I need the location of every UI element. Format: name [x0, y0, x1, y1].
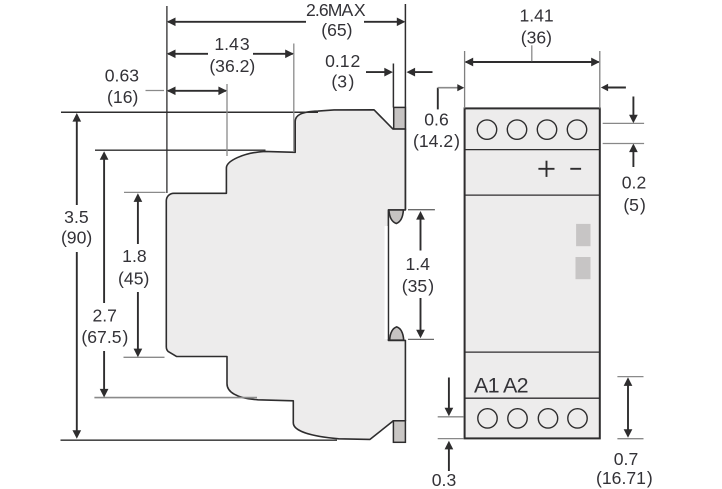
front divider terminal strip [465, 149, 600, 151]
dim 2.6MAX line [167, 17, 406, 26]
svg-text:1.41: 1.41 [519, 5, 553, 25]
svg-text:0.12: 0.12 [325, 51, 360, 71]
svg-text:0.3: 0.3 [432, 470, 457, 489]
extension line gray x293.8 [293, 44, 295, 153]
dim 0.12 arrows [366, 68, 433, 77]
svg-text:(16.71): (16.71) [596, 468, 653, 488]
dim 3.5 arrows [72, 113, 81, 439]
bottom clip [393, 421, 405, 443]
top clip [394, 107, 406, 128]
tick bottom 1.8 [124, 356, 165, 358]
dim 0.2 arrows [603, 97, 644, 168]
svg-text:(3): (3) [331, 71, 354, 91]
reference line bottom 3.5 [61, 439, 338, 441]
extension line front right [599, 51, 601, 108]
front view body [465, 108, 600, 438]
svg-text:A1 A2: A1 A2 [474, 373, 528, 397]
terminal circle T3 [537, 120, 556, 139]
svg-text:(36.2): (36.2) [209, 56, 255, 76]
svg-text:0.7: 0.7 [614, 449, 638, 469]
front divider a1a2 strip [465, 351, 600, 353]
svg-text:0.63: 0.63 [105, 65, 139, 85]
dim 1.4 arrows [408, 210, 435, 340]
dim 1.43 line [167, 49, 294, 58]
dim 0.6 right arrow [601, 84, 626, 91]
bottom terminal circle B1 [478, 409, 497, 428]
svg-text:(45): (45) [118, 268, 149, 288]
svg-text:2.7: 2.7 [92, 305, 116, 325]
bottom terminal circle B4 [568, 409, 587, 428]
din rail flange left line [392, 64, 394, 108]
led window 1 [576, 224, 590, 246]
terminal circle T4 [567, 120, 586, 139]
svg-text:(5): (5) [623, 195, 646, 215]
dim 0.3 arrows [438, 378, 464, 472]
lower tab [390, 327, 404, 340]
svg-text:2.6MAX: 2.6MAX [306, 0, 366, 20]
extension line gray x227 [226, 84, 228, 156]
svg-text:3.5: 3.5 [64, 207, 89, 227]
dim 1.8 arrows [134, 193, 143, 357]
svg-text:1.4: 1.4 [405, 254, 430, 274]
tick top 1.8 [124, 191, 166, 193]
reference line bottom 2.7 [94, 397, 257, 399]
svg-text:1.8: 1.8 [122, 246, 147, 266]
svg-text:(14.2): (14.2) [413, 131, 460, 151]
notch fill sliver [385, 226, 388, 339]
svg-text:(35): (35) [402, 276, 434, 296]
svg-text:(65): (65) [321, 20, 352, 40]
svg-text:0.2: 0.2 [622, 173, 646, 193]
svg-text:0.6: 0.6 [424, 110, 449, 130]
svg-text:1.43: 1.43 [214, 34, 249, 54]
front divider plus minus strip [465, 194, 600, 196]
dim 1.41 line [465, 45, 600, 66]
bottom terminal circle B3 [538, 409, 557, 428]
terminal circle T1 [477, 120, 496, 139]
bottom terminal circle B2 [508, 409, 527, 428]
reference line top 2.7 [95, 149, 266, 151]
extension line front left [464, 51, 466, 108]
upper tab [389, 210, 404, 224]
front divider bottom strip [465, 397, 600, 399]
svg-text:(16): (16) [107, 87, 138, 107]
din rail extension right line [404, 4, 406, 210]
svg-text:(67.5): (67.5) [81, 327, 128, 347]
svg-text:(36): (36) [521, 28, 552, 48]
dim 2.7 arrows [100, 151, 109, 397]
dim 0.7 arrows [617, 377, 643, 439]
terminal circle T2 [507, 120, 526, 139]
side view body profile [166, 110, 405, 440]
reference line top 3.5 [61, 111, 318, 113]
extension line left x166 [166, 6, 168, 193]
svg-text:(90): (90) [61, 227, 92, 247]
dim 0.63 line [146, 86, 228, 95]
dim 0.6 leader [438, 84, 465, 109]
minus symbol [570, 168, 581, 170]
plus symbol [538, 161, 554, 177]
led window 2 [576, 257, 591, 279]
